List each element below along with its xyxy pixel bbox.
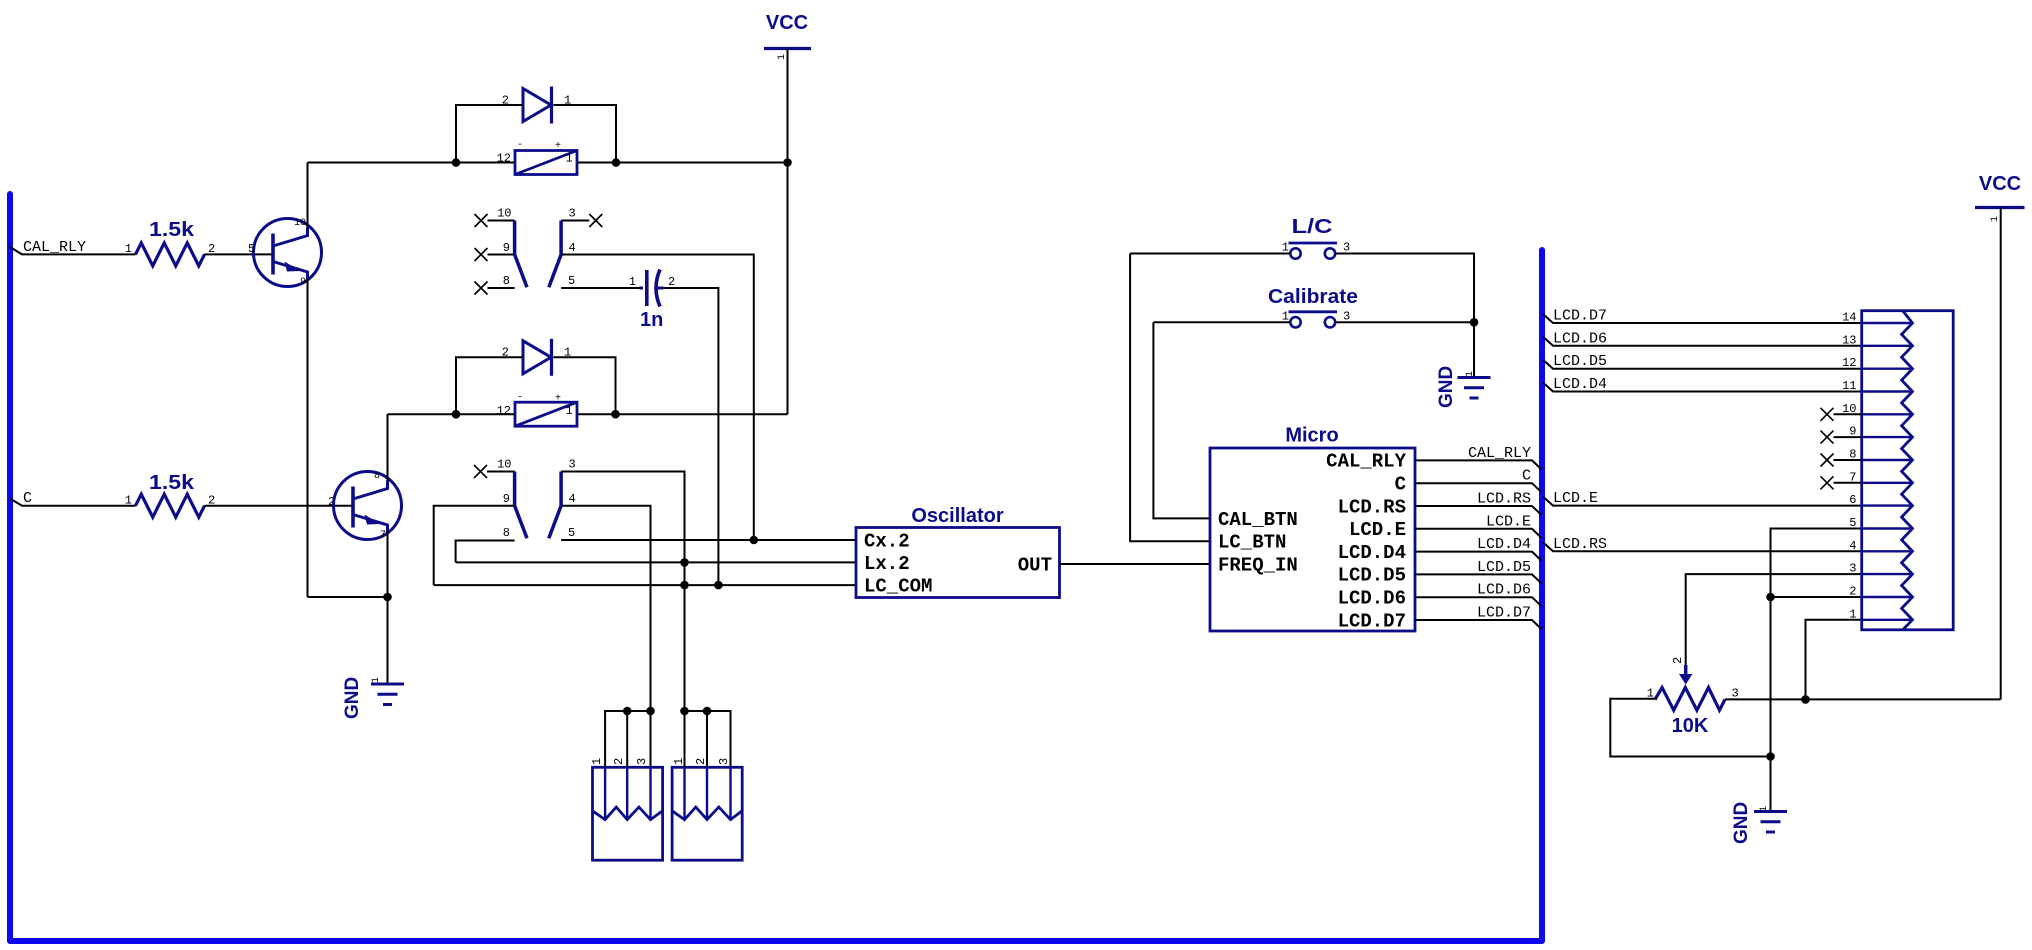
wire stub relay-upper pin10 [488,220,515,222]
svg-text:2: 2 [694,758,708,765]
svg-text:1: 1 [672,758,686,765]
svg-text:FREQ_IN: FREQ_IN [1218,555,1298,577]
svg-text:3: 3 [635,758,649,765]
wire relay-lower pin8 to Lx row [456,541,515,563]
wire D-upper right riser [554,105,617,163]
svg-text:10: 10 [497,207,511,221]
wire S2 pin3 to junction [1335,321,1474,323]
svg-text:GND: GND [1731,802,1752,844]
wire VCC-right down to pot row [2000,208,2002,700]
junction at 456,162.5 [452,158,461,167]
wire Micro LCD.D4 to bus with ramp [1415,552,1542,561]
wire Micro LCD.D5 to bus with ramp [1415,574,1542,583]
wire K1 pin12 [456,162,515,164]
wire CAL_RLY from bus to R1 pin1 [10,247,136,254]
wire relay-upper pin5 to C1 [561,287,639,289]
svg-text:1: 1 [1282,241,1289,255]
svg-text:-: - [517,140,523,151]
wire Micro LCD.D6 to bus with ramp [1415,597,1542,606]
svg-text:10: 10 [497,458,511,472]
wire LCD pin5 left and down [1771,529,1862,757]
svg-text:1.5k: 1.5k [149,472,195,494]
svg-text:LCD.E: LCD.E [1553,490,1598,507]
svg-text:LCD.D6: LCD.D6 [1477,582,1531,599]
svg-text:12: 12 [1842,356,1856,370]
wire stub relay-upper pin9 [488,254,515,256]
wire down to GND lower-left [387,597,389,684]
svg-text:Cx.2: Cx.2 [864,531,910,553]
wire node row y414 [388,413,788,415]
junction at 615.5,414.2 [611,410,620,419]
junction at 753.8,540 [750,536,759,545]
wire bus to LCD pin 14 (LCD.D7) [1543,314,1862,323]
junction at 456,414.2 [452,410,461,419]
svg-text:LCD.D4: LCD.D4 [1553,376,1607,393]
svg-text:2: 2 [1849,585,1856,599]
wire D-lower right riser [554,357,616,414]
wire S1 pin3 down [1335,254,1474,323]
svg-text:LCD.RS: LCD.RS [1338,496,1406,518]
relay coil K1 (upper) [515,151,577,175]
svg-text:LCD.RS: LCD.RS [1477,491,1531,508]
junction at 1474,322.3 [1470,318,1479,327]
svg-text:C: C [1522,468,1531,485]
connector J-LCD pin stubs [1862,323,1913,620]
svg-text:VCC: VCC [1979,173,2021,195]
op-amp U1 Oscillator block [856,505,1060,598]
connector P2 body (right 3-pin) [672,767,742,860]
svg-text:L/C: L/C [1292,216,1333,238]
svg-text:11: 11 [1842,379,1856,393]
wire P2 bridge [685,711,731,767]
svg-text:1: 1 [1990,216,2001,222]
no-connect X J-LCD pin 7 [1821,476,1834,489]
svg-text:-: - [517,393,523,404]
wire stub relay-upper pin3 [561,220,589,222]
wire S1 pin1 to LC_BTN [1130,254,1290,542]
wire Micro C to bus with ramp [1415,483,1542,492]
svg-text:Calibrate: Calibrate [1268,286,1358,308]
wire LCD pin2 to vertical [1771,596,1862,598]
op-amp U2 Micro block [1210,425,1415,632]
junction at 684.5,585.1 [680,581,689,590]
svg-text:10: 10 [294,218,306,229]
svg-text:CAL_RLY: CAL_RLY [1326,451,1406,473]
svg-text:8: 8 [503,274,510,288]
svg-text:5: 5 [568,526,575,540]
wire Micro LCD.RS to bus with ramp [1415,506,1542,515]
junction at 684.5,711 [680,707,689,716]
no-connect X J-LCD pin 10 [1821,408,1834,421]
svg-text:10K: 10K [1672,715,1709,737]
wire Q1 emitter run to junction [308,596,388,598]
junction at 616,162.5 [612,158,621,167]
wire relay-lower pin9 left-down to LC_COM [434,506,515,585]
svg-text:1: 1 [629,275,636,289]
svg-text:2: 2 [328,495,335,509]
svg-text:1: 1 [1465,371,1476,377]
svg-text:1: 1 [1759,806,1770,812]
svg-text:1: 1 [777,54,788,60]
junction at 1770.5,597 [1766,593,1775,602]
wire relay-lower pin3 down to connector P2 [561,472,684,712]
junction at 650.5,711 [646,707,655,716]
svg-text:2: 2 [668,275,675,289]
switch S1 L/C button [1289,243,1338,259]
capacitor C1 1n [639,270,663,307]
svg-text:5: 5 [568,274,575,288]
wire bus to LCD pin 12 (LCD.D5) [1543,360,1862,369]
svg-text:LCD.D7: LCD.D7 [1553,308,1607,325]
diode D-lower (across relay coil K2) [523,339,552,376]
svg-text:14: 14 [1842,311,1856,325]
svg-text:4: 4 [569,492,576,506]
svg-text:3: 3 [1849,562,1856,576]
wire pot pin1 loop [1610,699,1770,757]
relay-lower contact blade right [549,472,561,539]
svg-text:LCD.D4: LCD.D4 [1477,536,1531,553]
svg-text:5: 5 [248,242,255,256]
wire Micro LCD.D7 to bus with ramp [1415,620,1542,629]
wire Micro CAL_RLY to bus with ramp [1415,460,1542,469]
svg-text:LCD.D5: LCD.D5 [1477,559,1531,576]
junction at 387.5,597 [383,593,392,602]
no-connect X relay-upper pin 10 [475,214,488,227]
wire relay-lower pin4 down to connector P1 [561,506,650,711]
wire relay-upper pin4 to vertical x753.8 [561,255,754,541]
wire bus to LCD pin 4 (LCD.RS) [1543,542,1862,551]
junction at 718.4,585.1 [714,581,723,590]
svg-text:C: C [23,490,32,507]
svg-text:3: 3 [569,207,576,221]
svg-text:LCD.D5: LCD.D5 [1338,565,1406,587]
resistor R-lower 1.5k [136,494,205,517]
wire LCD pin1 left and down [1806,620,1862,700]
junction at 1805.5,699.4 [1801,695,1810,704]
wire K1 pin1 [577,162,616,164]
junction at 1770.5,756.5 [1766,752,1775,761]
svg-text:LCD.D6: LCD.D6 [1338,588,1406,610]
svg-text:VCC: VCC [766,12,808,34]
relay coil K2 (lower) [515,402,577,426]
svg-text:1.5k: 1.5k [149,219,195,241]
transistor Q1 (upper NPN) [254,219,322,287]
wire D-upper left riser [456,105,523,163]
power VCC (top right) [1975,173,2025,208]
wire Micro LCD.E to bus with ramp [1415,529,1542,538]
svg-text:CAL_RLY: CAL_RLY [1468,445,1531,462]
wire to GND bottom-right [1770,757,1772,812]
svg-text:LCD.D6: LCD.D6 [1553,330,1607,347]
wire C from bus to R2 pin1 [10,499,136,506]
ground GND (below Calibrate) [1458,378,1491,399]
diode D-upper (across relay coil K1) [523,87,552,124]
svg-text:LCD.E: LCD.E [1349,519,1406,541]
svg-text:4: 4 [1849,539,1856,553]
svg-text:LCD.E: LCD.E [1486,513,1531,530]
wire top node row y162 [308,162,788,164]
wire net Lx.2 [456,561,856,563]
junction at 684.5,562.4 [680,558,689,567]
svg-text:LC_COM: LC_COM [864,576,932,598]
junction at 707,711 [703,707,712,716]
no-connect X relay-upper pin 9 [475,248,488,261]
svg-text:1: 1 [566,152,573,166]
svg-text:5: 5 [1849,516,1856,530]
wire net Cx.2 from relay-lower pin5 [561,539,856,541]
svg-text:4: 4 [569,241,576,255]
svg-text:2: 2 [1671,657,1685,664]
wire C1 pin2 to vertical x718.4 [663,288,718,585]
svg-text:9: 9 [503,492,510,506]
svg-text:Micro: Micro [1285,425,1338,447]
connector P1 body (left 3-pin) [593,767,663,860]
svg-text:8: 8 [374,471,380,482]
wire pot pin3 to VCC vertical [1725,698,2001,700]
no-connect X J-LCD pin 9 [1821,431,1834,444]
svg-text:LCD.D7: LCD.D7 [1477,605,1531,622]
svg-text:1: 1 [125,494,132,508]
wire bus left/bottom/right (blue power bus) [10,194,1542,941]
wire bus to LCD pin 11 (LCD.D4) [1543,383,1862,392]
svg-text:9: 9 [300,277,306,288]
no-connect X relay-lower pin 10 [474,465,487,478]
transistor Q2 (lower NPN) [334,472,402,540]
svg-text:GND: GND [1436,366,1457,408]
wire stub relay-lower pin10 [487,471,515,473]
svg-text:1n: 1n [640,309,663,331]
svg-text:Oscillator: Oscillator [911,505,1003,527]
wire net LC_COM [434,584,856,586]
wire D-lower left riser [456,357,523,414]
svg-text:3: 3 [569,458,576,472]
no-connect X relay-upper pin 3 [589,214,602,227]
connector J-LCD body [1862,311,1954,630]
svg-text:+: + [555,141,561,152]
svg-text:12: 12 [497,404,511,418]
svg-text:Lx.2: Lx.2 [864,553,910,575]
power VCC (top center) [764,12,811,49]
svg-text:LCD.RS: LCD.RS [1553,536,1607,553]
wire Q1 emitter down [307,278,309,597]
relay-lower contact blade left [515,472,527,539]
wire Q2 collector up to y414 [387,414,389,481]
svg-text:1: 1 [1849,607,1856,621]
wire S2 pin1 to CAL_BTN [1153,322,1290,518]
wire LCD pin3 left and down to pot wiper [1686,574,1862,666]
wire R1 pin2 to Q1 base [205,253,274,255]
ground GND (lower left) [371,684,404,705]
svg-text:OUT: OUT [1018,555,1052,577]
wire P1 bridge [605,711,650,767]
potentiometer R3 10K body [1655,688,1725,711]
potentiometer wiper arrow [1679,665,1692,685]
wire bus to LCD pin 6 (LCD.E) [1543,497,1862,506]
wire R2 pin2 to Q2 base [205,505,354,507]
wire Q2 emitter down to junction [387,531,389,597]
no-connect X relay-upper pin 8 [475,282,488,295]
svg-text:1: 1 [371,677,382,683]
junction at 787.5,162.5 [783,158,792,167]
svg-text:2: 2 [612,758,626,765]
svg-text:1: 1 [125,242,132,256]
svg-text:3: 3 [1343,241,1350,255]
svg-text:1: 1 [590,758,604,765]
svg-text:CAL_BTN: CAL_BTN [1218,509,1298,531]
wire VCC-top down to y414 [787,49,789,415]
relay-upper contact blade left [515,221,527,288]
svg-text:8: 8 [503,526,510,540]
svg-text:7: 7 [380,530,386,541]
svg-text:C: C [1395,474,1406,496]
wire OUT to FREQ_IN [1060,563,1211,565]
resistor R-upper 1.5k [136,243,205,266]
svg-text:LC_BTN: LC_BTN [1218,532,1286,554]
no-connect X J-LCD pin 8 [1821,454,1834,467]
wire junction down to GND mid [1473,322,1475,377]
svg-text:GND: GND [342,677,363,719]
svg-text:LCD.D7: LCD.D7 [1338,610,1406,632]
ground GND (bottom right) [1754,812,1787,833]
switch S2 Calibrate button [1289,312,1338,328]
wire stub relay-upper pin8 [488,287,515,289]
svg-text:3: 3 [717,758,731,765]
wire bus to LCD pin 13 (LCD.D6) [1543,337,1862,346]
svg-text:LCD.D4: LCD.D4 [1338,542,1406,564]
svg-text:1: 1 [566,404,573,418]
svg-text:9: 9 [503,241,510,255]
junction at 627.2,711 [623,707,632,716]
svg-text:+: + [555,394,561,405]
svg-text:13: 13 [1842,333,1856,347]
wire Q1 collector up to node row [307,163,309,229]
svg-text:6: 6 [1849,493,1856,507]
svg-text:LCD.D5: LCD.D5 [1553,353,1607,370]
relay-upper contact blade right [549,221,561,288]
